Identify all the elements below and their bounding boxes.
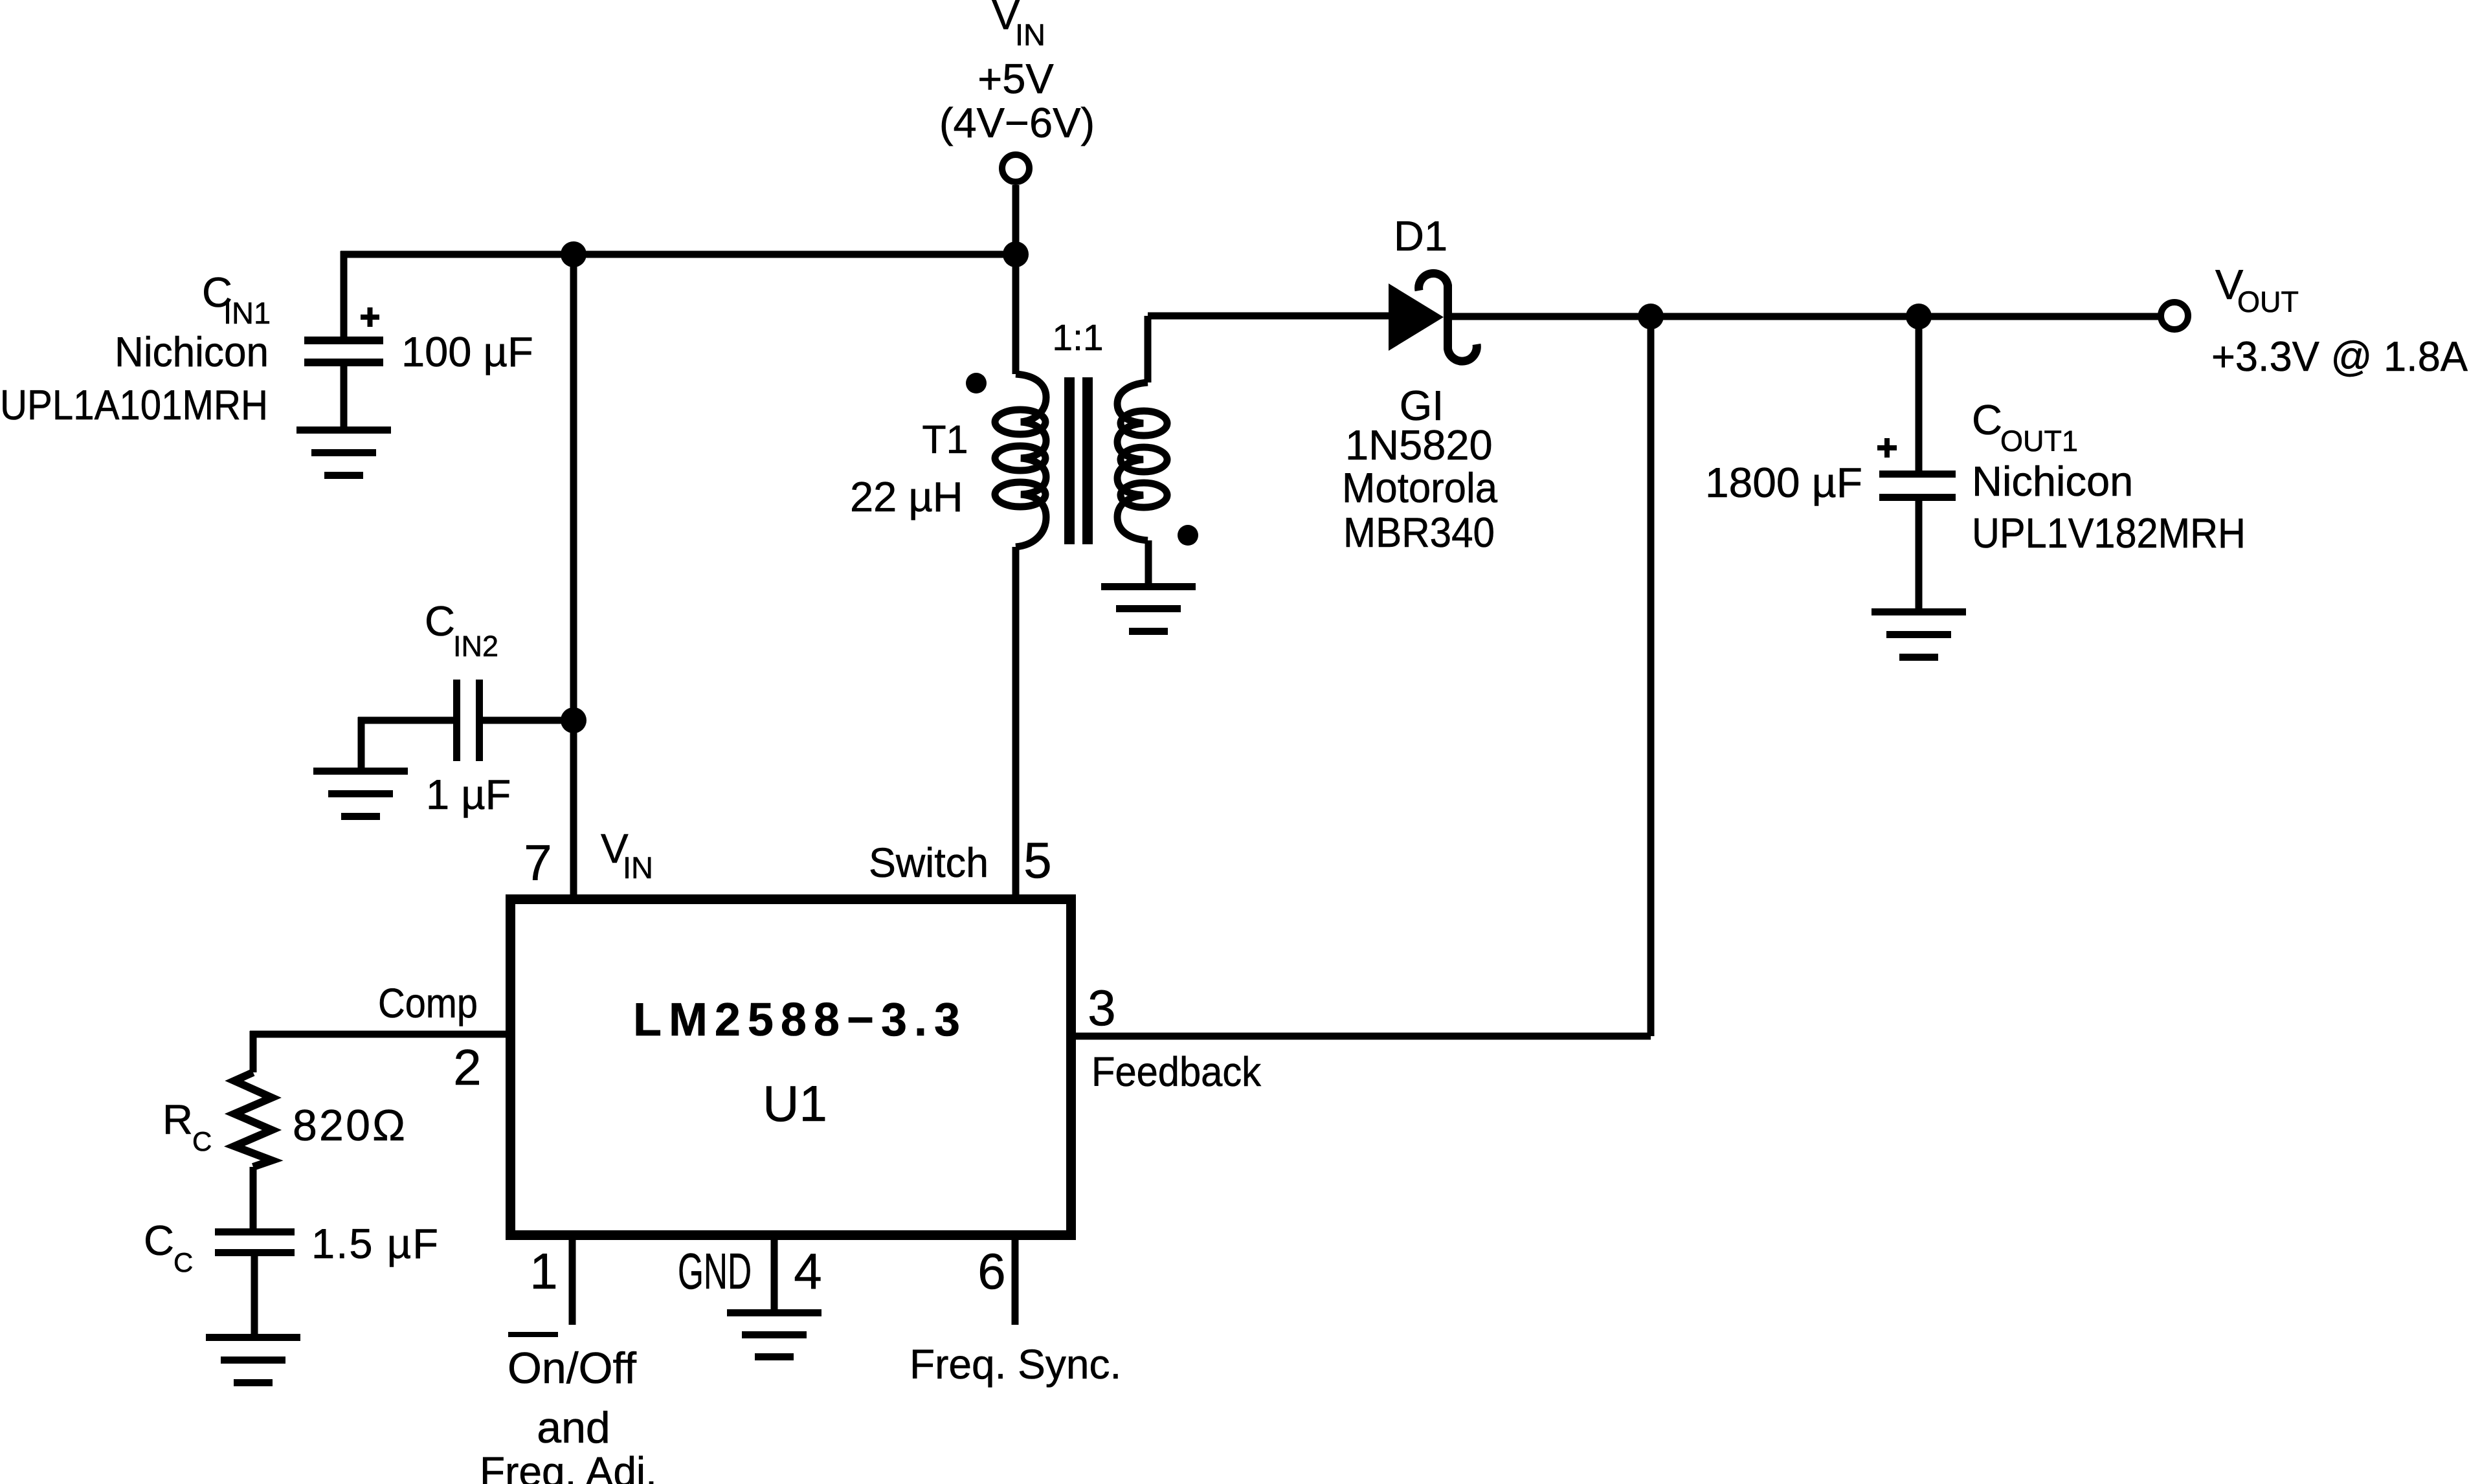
node junction dot A: [561, 241, 587, 267]
transformer T1 phase dot primary: [966, 373, 987, 393]
wire U1 pin4 GND: [771, 1240, 778, 1309]
svg-text:1800 µF: 1800 µF: [1705, 459, 1862, 506]
svg-text:Freq. Sync.: Freq. Sync.: [910, 1341, 1121, 1388]
svg-text:OUT: OUT: [2237, 285, 2299, 318]
wire CIN1 lead: [341, 251, 348, 337]
svg-text:3: 3: [1088, 979, 1115, 1036]
wire diode output rail: [1452, 313, 2161, 320]
plus sign CIN1: [361, 307, 379, 327]
wire CIN2 right: [483, 717, 574, 724]
capacitor COUT1 plates: [1879, 471, 1956, 501]
svg-text:Switch: Switch: [869, 839, 989, 886]
svg-text:Freq. Adj.: Freq. Adj.: [480, 1448, 657, 1484]
diode D1 schottky cathode: [1419, 273, 1477, 361]
svg-text:Feedback: Feedback: [1091, 1048, 1262, 1095]
svg-text:C: C: [173, 1247, 193, 1278]
svg-text:820Ω: 820Ω: [293, 1101, 405, 1150]
wire CIN2 left: [358, 717, 453, 768]
svg-text:Comp: Comp: [378, 980, 478, 1026]
svg-text:100 µF: 100 µF: [401, 328, 533, 375]
wire node A vertical (VIN rail to U1 pin7): [570, 254, 577, 903]
ground CIN1: [296, 426, 391, 479]
ground T1 secondary: [1101, 583, 1196, 635]
terminal VIN: [1002, 155, 1029, 182]
svg-text:1.5 µF: 1.5 µF: [311, 1220, 438, 1267]
svg-text:and: and: [537, 1403, 610, 1452]
svg-text:1: 1: [530, 1243, 557, 1300]
svg-text:Motorola: Motorola: [1342, 464, 1498, 511]
op-amp U1 box LM2588: [511, 900, 1071, 1235]
svg-text:1:1: 1:1: [1052, 317, 1103, 359]
wire VIN terminal lead: [1012, 185, 1020, 254]
svg-text:IN2: IN2: [453, 630, 498, 663]
diode D1 triangle: [1389, 283, 1444, 351]
svg-text:C: C: [1972, 396, 2002, 443]
resistor RC zigzag: [234, 1072, 272, 1167]
wire feedback horizontal to pin3: [1076, 1033, 1651, 1040]
svg-text:+5V: +5V: [978, 55, 1054, 102]
svg-text:Nichicon: Nichicon: [1972, 458, 2133, 505]
svg-text:22 µH: 22 µH: [850, 473, 963, 520]
node junction dot VIN: [1003, 241, 1029, 267]
wire T1 secondary top lead: [1148, 316, 1389, 382]
svg-text:MBR340: MBR340: [1343, 509, 1495, 556]
wire feedback vertical: [1648, 316, 1655, 1036]
wire RC bottom lead: [250, 1167, 257, 1228]
svg-text:On/Off: On/Off: [508, 1344, 636, 1393]
svg-text:(4V−6V): (4V−6V): [939, 99, 1095, 146]
capacitor CIN1 plates: [304, 337, 383, 366]
svg-text:+3.3V @ 1.8A: +3.3V @ 1.8A: [2211, 333, 2468, 380]
svg-text:1N5820: 1N5820: [1345, 421, 1493, 469]
plus sign COUT1: [1877, 438, 1897, 458]
capacitor CIN2 plates: [453, 680, 483, 761]
svg-text:T1: T1: [922, 417, 968, 461]
svg-text:2: 2: [453, 1039, 481, 1096]
wire T1 primary to U1 pin5: [1012, 547, 1020, 903]
svg-text:IN1: IN1: [223, 296, 271, 330]
wire top horizontal: [341, 251, 1016, 258]
On overline: [508, 1332, 558, 1337]
transformer T1 primary coil: [995, 374, 1046, 547]
svg-text:5: 5: [1023, 832, 1051, 889]
wire COUT1 lead: [1916, 316, 1923, 608]
svg-text:GND: GND: [678, 1243, 752, 1300]
ground CC: [206, 1334, 300, 1386]
wire U1 pin2 Comp: [250, 1031, 506, 1072]
svg-text:D1: D1: [1394, 212, 1447, 260]
svg-text:IN: IN: [1015, 17, 1045, 52]
svg-text:C: C: [144, 1217, 174, 1264]
transformer T1 phase dot secondary: [1178, 525, 1198, 546]
transformer T1 core bars: [1064, 377, 1093, 544]
node junction dot CIN2: [561, 707, 587, 733]
ground COUT1: [1871, 608, 1966, 661]
svg-text:4: 4: [794, 1243, 821, 1300]
wire T1 secondary bottom lead: [1145, 540, 1152, 583]
svg-text:Nichicon: Nichicon: [115, 328, 269, 375]
wire VIN to T1 primary: [1012, 254, 1020, 374]
wire U1 pin1: [569, 1240, 576, 1325]
ground U1 pin4: [727, 1309, 821, 1360]
node junction dot diode out: [1638, 304, 1664, 329]
svg-text:UPL1V182MRH: UPL1V182MRH: [1972, 509, 2246, 557]
wire CC bottom lead: [251, 1256, 258, 1334]
node junction dot COUT: [1906, 304, 1932, 329]
svg-text:7: 7: [524, 834, 552, 891]
svg-text:UPL1A101MRH: UPL1A101MRH: [0, 381, 268, 428]
svg-text:U1: U1: [763, 1075, 827, 1132]
svg-text:C: C: [192, 1126, 212, 1157]
svg-text:OUT1: OUT1: [2000, 425, 2078, 458]
capacitor CC plates: [215, 1228, 295, 1256]
wire CIN1 bottom lead: [341, 366, 348, 426]
wire U1 pin6: [1012, 1240, 1019, 1325]
svg-text:C: C: [425, 597, 455, 645]
svg-text:6: 6: [978, 1243, 1005, 1300]
svg-text:IN: IN: [623, 850, 653, 885]
transformer T1 secondary coil: [1117, 382, 1167, 540]
svg-text:1 µF: 1 µF: [426, 771, 511, 818]
terminal VOUT: [2161, 302, 2188, 329]
ground CIN2: [313, 768, 408, 820]
svg-text:R: R: [162, 1096, 193, 1143]
